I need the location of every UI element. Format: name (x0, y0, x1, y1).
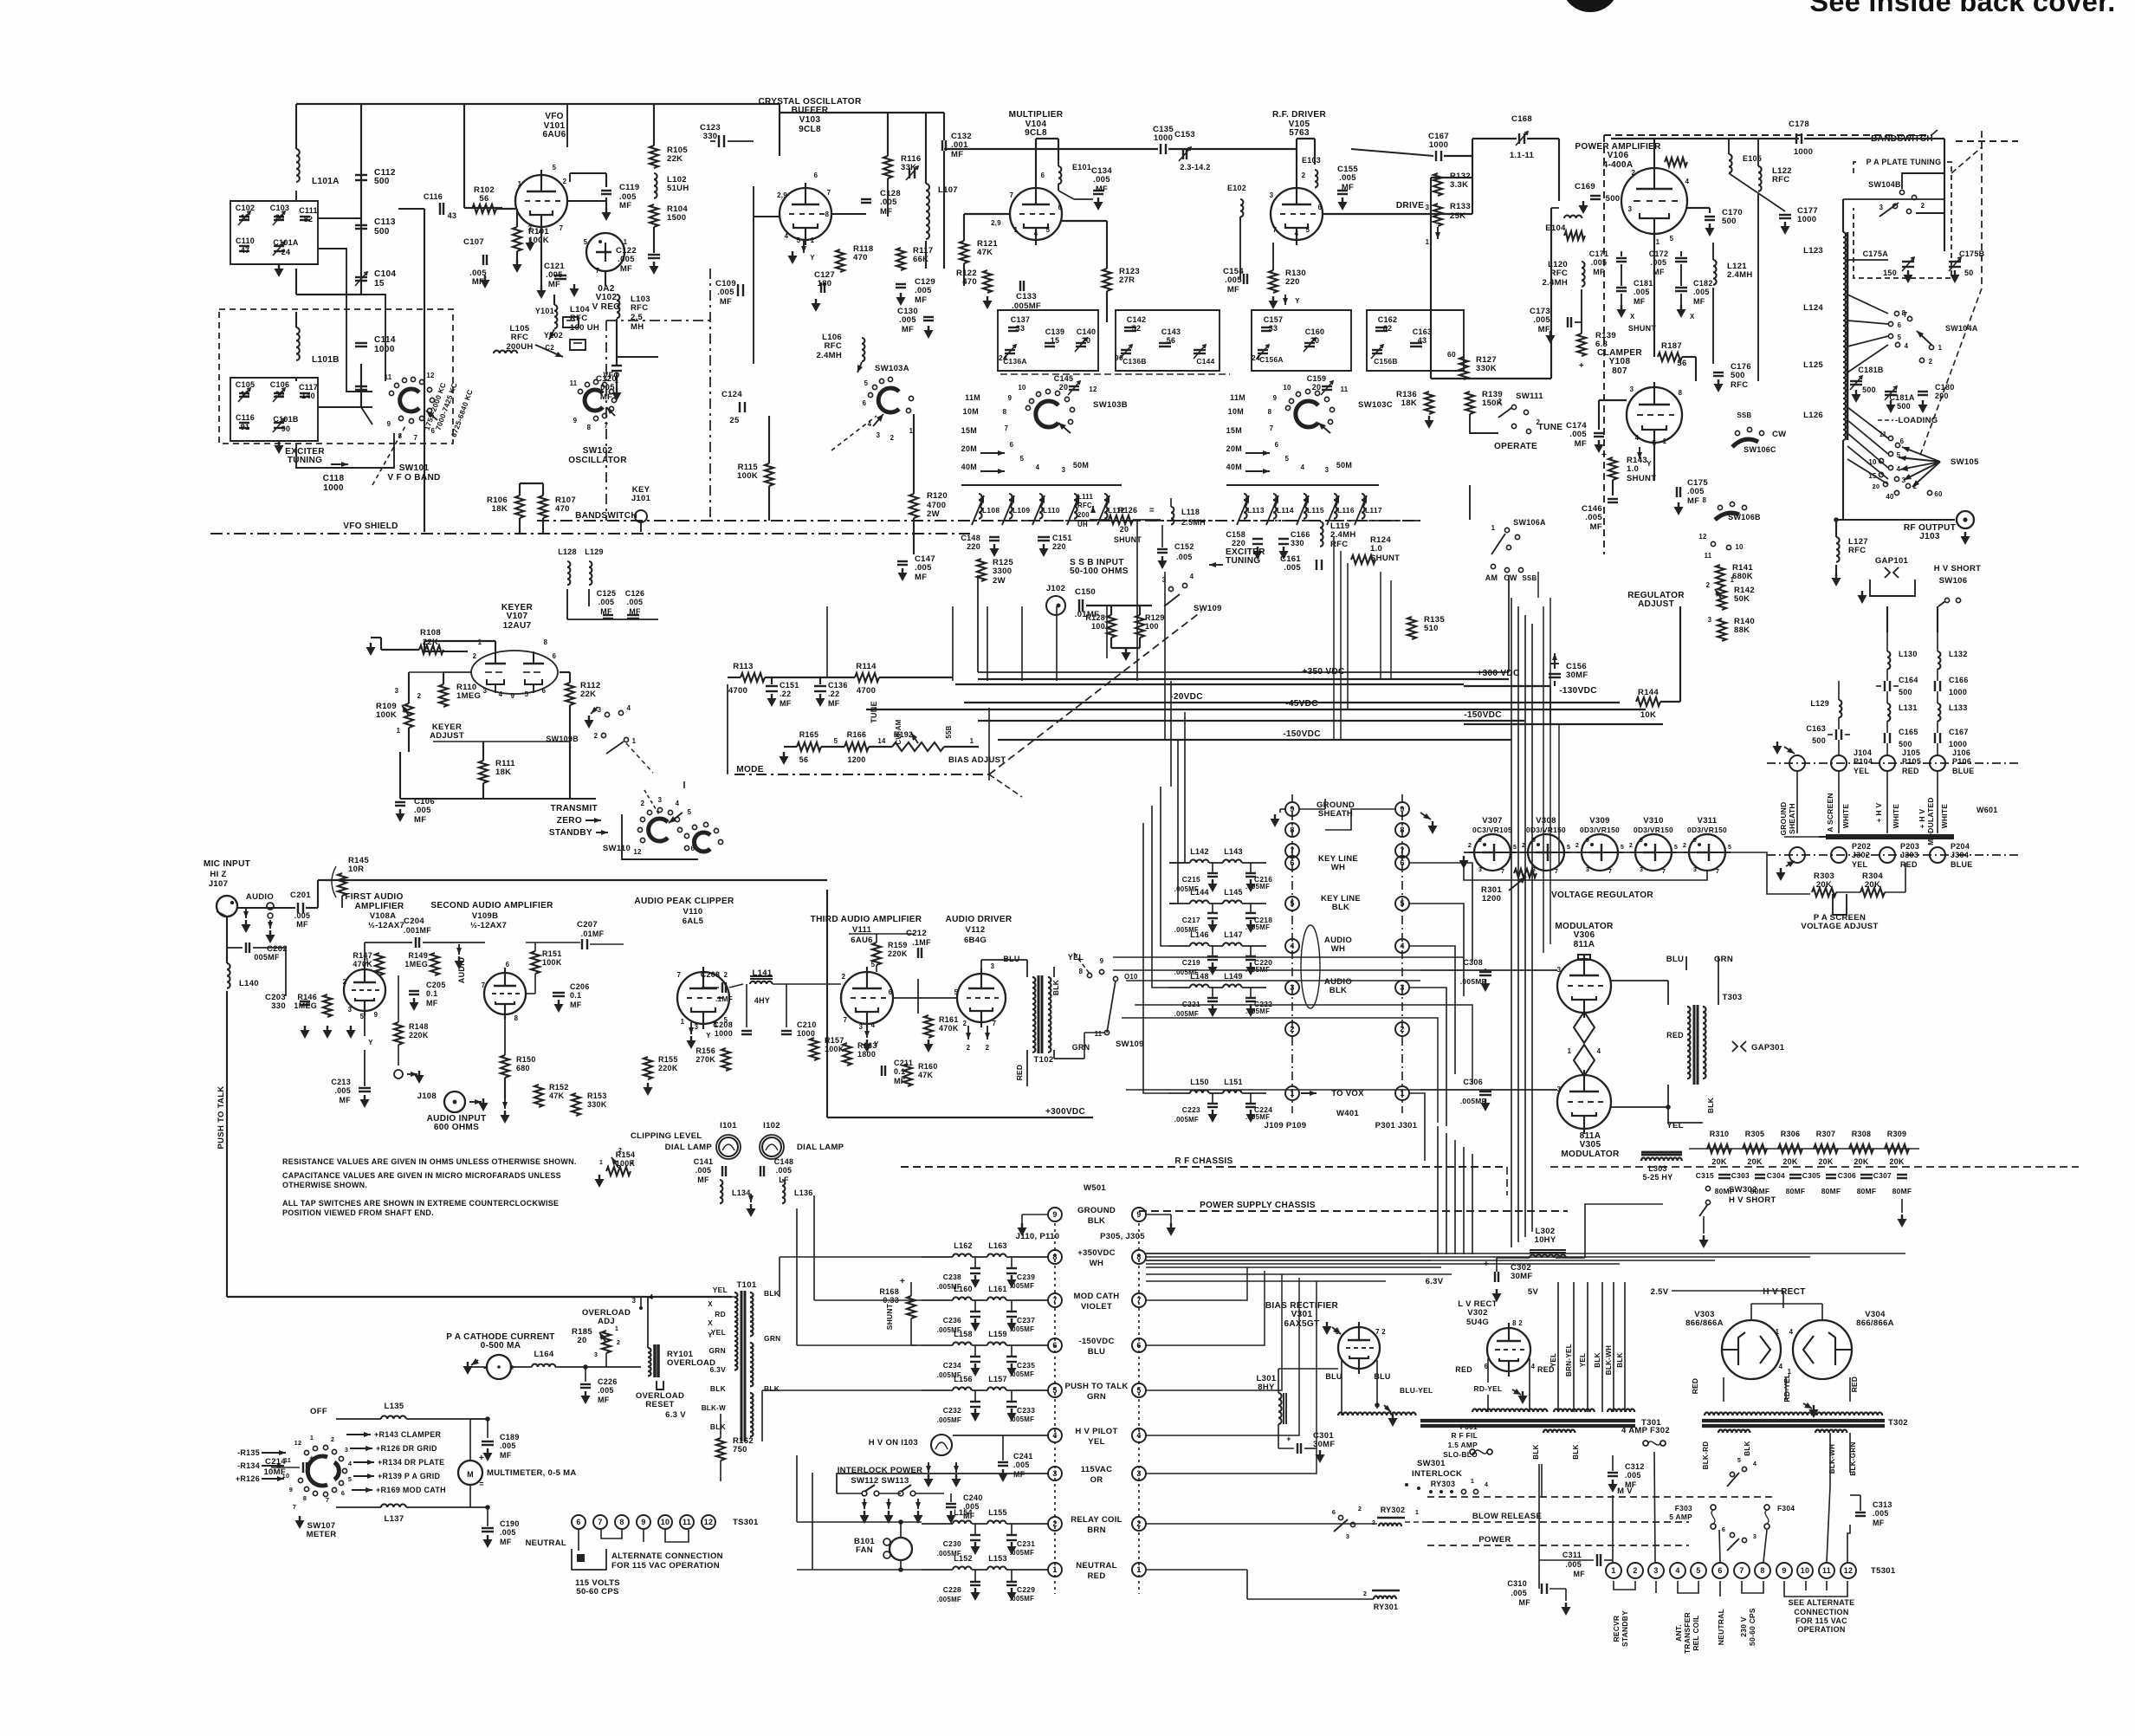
wire lead BRN-YEL (1573, 1282, 1575, 1412)
wire (237, 907, 295, 909)
coil L104 (554, 305, 557, 328)
wire (588, 589, 590, 606)
svg-text:R113: R113 (733, 662, 753, 671)
svg-text:OPERATION: OPERATION (1797, 1625, 1845, 1634)
svg-text:4: 4 (1685, 178, 1690, 185)
svg-text:AUDIO: AUDIO (246, 892, 274, 902)
svg-text:2.5V: 2.5V (1651, 1287, 1669, 1297)
svg-text:T303: T303 (1723, 993, 1743, 1002)
capacitor C164b (1884, 681, 1886, 691)
ground (399, 809, 401, 813)
wire (306, 907, 318, 909)
wire (913, 414, 915, 494)
svg-text:VFO SHIELD: VFO SHIELD (343, 521, 398, 531)
svg-text:SW106A: SW106A (1513, 518, 1546, 527)
svg-text:RY301: RY301 (1374, 1603, 1399, 1611)
coil L106 (862, 338, 864, 361)
svg-text:SW301: SW301 (1417, 1459, 1446, 1468)
ground (516, 260, 518, 264)
svg-text:500: 500 (374, 177, 390, 186)
svg-text:24: 24 (1252, 353, 1260, 362)
svg-text:C101A: C101A (273, 238, 299, 247)
svg-text:+R143 CLAMPER: +R143 CLAMPER (374, 1430, 442, 1439)
svg-text:BLK-RD: BLK-RD (1702, 1441, 1710, 1470)
svg-text:BLK: BLK (764, 1289, 780, 1298)
svg-text:C315: C315 (1696, 1171, 1714, 1180)
svg-text:C157: C157 (1264, 315, 1284, 324)
svg-text:20: 20 (1312, 383, 1322, 392)
svg-text:F301: F301 (1460, 1422, 1478, 1431)
svg-text:7: 7 (1739, 1566, 1744, 1575)
svg-text:56: 56 (799, 755, 809, 764)
svg-text:AM: AM (1485, 573, 1498, 582)
svg-text:4: 4 (1779, 1363, 1783, 1370)
junction (898, 1567, 903, 1572)
tube V306 (1557, 959, 1611, 1013)
svg-text:L150: L150 (1190, 1078, 1209, 1086)
svg-text:TUNING: TUNING (1226, 556, 1260, 566)
terminal J110 pin 5 (1048, 1383, 1062, 1397)
leader arrow (1509, 877, 1526, 891)
svg-text:20: 20 (1120, 525, 1129, 534)
variable capacitor C159 (1322, 385, 1332, 387)
terminal P301 pin 8 (1395, 823, 1409, 837)
svg-text:330: 330 (703, 132, 718, 141)
wire (1126, 980, 1420, 981)
svg-text:9CL8: 9CL8 (1025, 128, 1047, 138)
capacitor C202 (245, 942, 247, 953)
capacitor C141 (721, 1166, 723, 1176)
wire (318, 249, 372, 392)
wire (1341, 1412, 1342, 1415)
svg-text:5 AMP: 5 AMP (1669, 1513, 1692, 1521)
terminal J109 pin 1 (1285, 1086, 1299, 1100)
svg-text:2: 2 (1633, 1566, 1637, 1575)
capacitor C309 (1479, 1091, 1491, 1092)
capacitor C301 (1297, 1443, 1298, 1454)
svg-text:.001MF: .001MF (404, 926, 431, 935)
wire (1086, 605, 1152, 606)
svg-text:11: 11 (1095, 1030, 1103, 1038)
ground (950, 1511, 952, 1515)
svg-text:20K: 20K (1818, 1157, 1834, 1166)
svg-text:C232: C232 (943, 1406, 961, 1415)
wire (1712, 243, 1714, 260)
svg-text:.005: .005 (1093, 175, 1110, 185)
coil L122 (1758, 166, 1762, 191)
svg-text:MF: MF (1573, 1570, 1585, 1578)
wire (1512, 852, 1524, 853)
ground (1392, 1414, 1394, 1418)
wire (371, 637, 381, 638)
switch SW106A (1491, 524, 1520, 554)
svg-text:5: 5 (1696, 1566, 1700, 1575)
svg-text:E104: E104 (1545, 223, 1566, 233)
svg-text:V106: V106 (1608, 151, 1629, 160)
tube V301 pins (1336, 1328, 1387, 1336)
wire (1135, 1005, 1472, 1085)
arrow (967, 1026, 969, 1040)
svg-text:1000: 1000 (1794, 147, 1813, 157)
svg-text:SW111: SW111 (1516, 392, 1543, 401)
svg-text:PUSH TO TALK: PUSH TO TALK (217, 1085, 226, 1149)
tube V101 pins (518, 164, 567, 236)
wire (1487, 1358, 1489, 1383)
svg-text:40: 40 (1886, 493, 1894, 501)
switch SW109a (1162, 573, 1194, 606)
svg-text:+R126: +R126 (236, 1474, 260, 1483)
wire (1529, 1358, 1530, 1412)
svg-text:GAP301: GAP301 (1751, 1043, 1785, 1053)
svg-text:2: 2 (1921, 202, 1925, 210)
wire (398, 208, 424, 210)
wire (812, 1473, 813, 1570)
svg-text:MF: MF (1575, 439, 1587, 449)
svg-text:50: 50 (1964, 269, 1974, 277)
svg-text:C125: C125 (597, 589, 617, 598)
svg-text:ADJ: ADJ (598, 1317, 615, 1326)
svg-text:5: 5 (1306, 226, 1310, 234)
svg-text:2: 2 (641, 800, 645, 807)
svg-text:R156: R156 (695, 1046, 715, 1055)
wire (381, 649, 419, 651)
svg-text:6: 6 (1332, 1508, 1336, 1516)
capacitor C206 (553, 992, 565, 994)
connector J106 (1930, 755, 1945, 771)
svg-text:7: 7 (1662, 867, 1666, 875)
svg-text:VIOLET: VIOLET (1081, 1302, 1112, 1312)
svg-text:OSCILLATOR: OSCILLATOR (568, 456, 627, 465)
svg-text:50K: 50K (1734, 594, 1750, 604)
wire lead BLK (1601, 1282, 1603, 1412)
wire (540, 227, 542, 286)
svg-text:9: 9 (573, 417, 578, 424)
svg-text:H V RECT: H V RECT (1763, 1287, 1806, 1297)
wire (1146, 1523, 1377, 1525)
coil L120 (1582, 262, 1585, 287)
svg-text:RED: RED (1015, 1065, 1024, 1081)
svg-text:2: 2 (1363, 1590, 1367, 1597)
svg-text:GRN: GRN (1087, 1392, 1106, 1402)
svg-text:MF: MF (426, 999, 438, 1007)
coil L134 (720, 1180, 722, 1203)
wire (728, 677, 741, 678)
variable capacitor C181A (1885, 391, 1897, 392)
cap bank box 4 (C162 C156B C164) (1367, 310, 1464, 371)
resistor R157 (810, 1038, 818, 1060)
svg-text:R147: R147 (353, 951, 372, 960)
terminal P305 pin 3 (1132, 1467, 1146, 1480)
wire (1847, 321, 1888, 324)
crystal Y101 (563, 317, 579, 327)
wire (913, 518, 915, 554)
svg-text:C171: C171 (1589, 249, 1609, 258)
capacitor C211 (881, 1066, 883, 1076)
svg-text:C240: C240 (963, 1493, 983, 1502)
capacitor C161 (1316, 560, 1317, 570)
svg-text:56: 56 (1167, 336, 1176, 345)
ground (1002, 1469, 1004, 1474)
svg-text:1: 1 (1471, 1477, 1474, 1485)
svg-text:20K: 20K (1865, 880, 1880, 890)
ground (928, 1040, 929, 1044)
svg-text:R166: R166 (847, 730, 867, 739)
svg-text:470K: 470K (353, 960, 372, 968)
svg-text:C312: C312 (1625, 1462, 1645, 1471)
wire (1139, 606, 1141, 615)
svg-text:6: 6 (431, 427, 436, 435)
svg-text:L132: L132 (1949, 650, 1968, 658)
svg-text:3: 3 (1879, 204, 1884, 211)
svg-text:7: 7 (844, 1016, 848, 1024)
svg-text:2.4MH: 2.4MH (816, 351, 842, 360)
capacitor C156 (1549, 673, 1561, 675)
wire (1653, 443, 1655, 481)
svg-text:5: 5 (525, 690, 529, 698)
ground (1598, 440, 1600, 444)
arrow (857, 362, 862, 372)
svg-text:SW112 SW113: SW112 SW113 (851, 1476, 909, 1486)
svg-text:V311: V311 (1698, 816, 1718, 826)
switch cluster HV (1727, 1456, 1757, 1487)
svg-text:-150VDC: -150VDC (1078, 1337, 1114, 1346)
svg-text:I101: I101 (720, 1121, 737, 1130)
svg-text:4: 4 (650, 1293, 654, 1301)
svg-text:C117: C117 (299, 383, 318, 392)
wire (464, 103, 654, 105)
ground (783, 752, 785, 756)
svg-text:.005: .005 (1634, 288, 1650, 296)
svg-text:90: 90 (281, 424, 291, 433)
ground (1612, 1480, 1614, 1484)
wire (1226, 484, 1379, 486)
coil L102 (654, 173, 657, 198)
svg-text:.005: .005 (776, 1166, 793, 1175)
svg-text:C206: C206 (570, 982, 590, 991)
filter coils L144 L145 (1169, 888, 1266, 904)
arrow (980, 470, 1005, 472)
svg-text:L303: L303 (1648, 1164, 1667, 1173)
svg-text:X: X (708, 1319, 713, 1327)
wire (1146, 1263, 1620, 1265)
tube V105 pins (1270, 172, 1323, 237)
wire (1409, 1093, 1425, 1161)
svg-text:.005: .005 (1693, 288, 1710, 296)
wire (1168, 148, 1273, 150)
svg-text:=: = (479, 1480, 484, 1488)
svg-text:C137: C137 (1011, 315, 1031, 324)
svg-text:BLK: BLK (1532, 1444, 1540, 1459)
cap bank box 3 (C157 C156A C160) (1252, 310, 1351, 371)
wire (893, 997, 918, 999)
arrow (866, 1026, 868, 1038)
terminal P305 pin 8 (1132, 1250, 1146, 1264)
resistor R310 (1707, 1144, 1731, 1153)
svg-text:9: 9 (1136, 1210, 1141, 1219)
svg-text:2: 2 (617, 1338, 620, 1346)
svg-text:9: 9 (387, 420, 391, 428)
svg-text:51UH: 51UH (667, 184, 689, 193)
tube V305 (1557, 1075, 1611, 1129)
svg-text:V110: V110 (683, 907, 703, 917)
svg-text:6: 6 (341, 1489, 345, 1497)
svg-text:1: 1 (681, 1018, 685, 1026)
svg-text:5: 5 (1898, 334, 1902, 341)
wire (482, 783, 484, 799)
svg-text:20K: 20K (1816, 880, 1832, 890)
svg-text:100K: 100K (825, 1045, 844, 1053)
svg-text:F303: F303 (1675, 1504, 1692, 1513)
svg-text:L111: L111 (1077, 493, 1094, 501)
SSB input box wire (977, 575, 979, 672)
wire (1598, 400, 1600, 430)
capacitor C169 (1590, 195, 1601, 197)
arrow (535, 345, 563, 357)
svg-text:3: 3 (594, 1351, 598, 1358)
mic connector J107 (217, 896, 237, 917)
tube V104 (1010, 188, 1062, 240)
wire (1549, 1588, 1566, 1590)
resistor R135 (1407, 617, 1416, 639)
svg-text:220K: 220K (658, 1064, 678, 1072)
wire (653, 227, 655, 253)
svg-text:MF: MF (963, 1512, 975, 1520)
svg-text:6: 6 (553, 652, 557, 660)
svg-text:.005MF: .005MF (1174, 1010, 1199, 1018)
svg-text:R108: R108 (420, 628, 441, 638)
svg-text:5: 5 (553, 164, 557, 172)
svg-text:12AU7: 12AU7 (503, 621, 532, 631)
terminal J109 pin 9 (1285, 802, 1299, 816)
marker square (577, 1554, 585, 1562)
tube V112 pins (954, 962, 997, 1027)
svg-text:0D3/VR150: 0D3/VR150 (1580, 826, 1620, 834)
svg-text:18K: 18K (1401, 398, 1417, 408)
svg-text:5: 5 (1513, 843, 1517, 851)
svg-text:L117: L117 (1365, 506, 1382, 515)
svg-text:866/866A: 866/866A (1685, 1318, 1724, 1328)
svg-text:56: 56 (479, 194, 488, 204)
resistor R143 (1608, 457, 1617, 480)
relay RY101 (648, 1348, 651, 1376)
svg-text:43: 43 (1418, 336, 1427, 345)
svg-text:R305: R305 (1745, 1130, 1765, 1138)
ground (1432, 821, 1433, 826)
svg-text:5: 5 (864, 379, 869, 387)
svg-text:3: 3 (1640, 865, 1643, 873)
wire (1804, 138, 1944, 139)
svg-text:Y102: Y102 (544, 331, 563, 340)
resistor R301 (1514, 869, 1537, 878)
ground (1283, 547, 1284, 551)
svg-text:2: 2 (967, 1044, 971, 1052)
svg-text:C156A: C156A (1259, 355, 1284, 364)
svg-text:AUDIO PEAK CLIPPER: AUDIO PEAK CLIPPER (634, 897, 734, 906)
resistor R309 (1885, 1144, 1909, 1153)
tube V105 (1271, 188, 1323, 240)
ground (1954, 270, 1956, 275)
resistor R101 (513, 227, 521, 251)
wire ladder (1689, 1148, 1919, 1150)
svg-text:SLO-BLO: SLO-BLO (1443, 1450, 1478, 1459)
svg-text:WHITE: WHITE (1892, 804, 1900, 829)
arrow (504, 1098, 506, 1109)
svg-text:RD-YEL: RD-YEL (1782, 1374, 1791, 1402)
capacitor C204 (415, 937, 417, 948)
wire (1106, 606, 1108, 658)
relay RY303 contacts (1429, 1490, 1433, 1493)
capacitor C123 (718, 135, 720, 147)
svg-text:C180: C180 (1935, 383, 1955, 392)
svg-text:.005: .005 (1284, 563, 1301, 573)
rotary switch SW103B (1025, 389, 1074, 433)
coil L133 (1938, 703, 1940, 721)
pot R154 (606, 1167, 631, 1176)
svg-text:C208: C208 (713, 1020, 733, 1029)
wire (1340, 551, 1342, 739)
svg-text:12: 12 (1089, 385, 1097, 393)
svg-text:BLK: BLK (1616, 1352, 1624, 1367)
svg-text:20K: 20K (1889, 1157, 1905, 1166)
svg-text:AUDIO DRIVER: AUDIO DRIVER (946, 915, 1013, 924)
wire (585, 1367, 586, 1382)
wire (1420, 969, 1557, 971)
svg-text:+: + (479, 1454, 484, 1463)
wire (1660, 701, 1680, 703)
svg-text:2: 2 (618, 1146, 622, 1154)
wire (534, 942, 536, 951)
arrow (803, 241, 805, 253)
svg-text:10: 10 (661, 1518, 670, 1526)
svg-text:L115: L115 (1307, 506, 1324, 515)
capacitor C150 (1078, 599, 1080, 612)
svg-text:470K: 470K (939, 1024, 959, 1033)
svg-text:L152: L152 (954, 1554, 973, 1563)
svg-text:2,9: 2,9 (991, 219, 1001, 227)
filter coils L152 L153 (922, 1554, 1048, 1570)
svg-text:811A: 811A (1574, 940, 1595, 949)
svg-text:C152: C152 (1174, 542, 1194, 551)
wire (227, 947, 243, 949)
terminal J110 pin 9 (1048, 1208, 1062, 1221)
wire (987, 606, 988, 681)
svg-text:ADJUST: ADJUST (430, 731, 464, 741)
capacitor C155 (1337, 190, 1348, 191)
wire (1472, 138, 1517, 139)
wire (1002, 1435, 1004, 1461)
svg-text:.005: .005 (500, 1528, 516, 1537)
coil L114 (1266, 494, 1294, 525)
svg-text:C150: C150 (1075, 587, 1096, 597)
svg-text:1.0: 1.0 (1370, 544, 1382, 554)
svg-text:20M: 20M (1226, 444, 1242, 453)
svg-text:3: 3 (1426, 204, 1430, 211)
svg-text:3: 3 (1902, 476, 1906, 484)
svg-text:12: 12 (633, 848, 642, 856)
tube V112 (957, 974, 1006, 1022)
coil L105 (494, 351, 517, 353)
svg-text:10: 10 (1801, 1566, 1810, 1575)
tube V103 pins (777, 172, 831, 244)
wire (341, 896, 343, 908)
capacitor C315 (1718, 1174, 1731, 1176)
pot arrow (1715, 589, 1722, 599)
ground (955, 1474, 957, 1479)
svg-text:YEL: YEL (711, 1328, 726, 1337)
svg-text:80MF: 80MF (1821, 1187, 1841, 1195)
svg-text:C308: C308 (1463, 958, 1483, 967)
wire (1113, 956, 1464, 958)
